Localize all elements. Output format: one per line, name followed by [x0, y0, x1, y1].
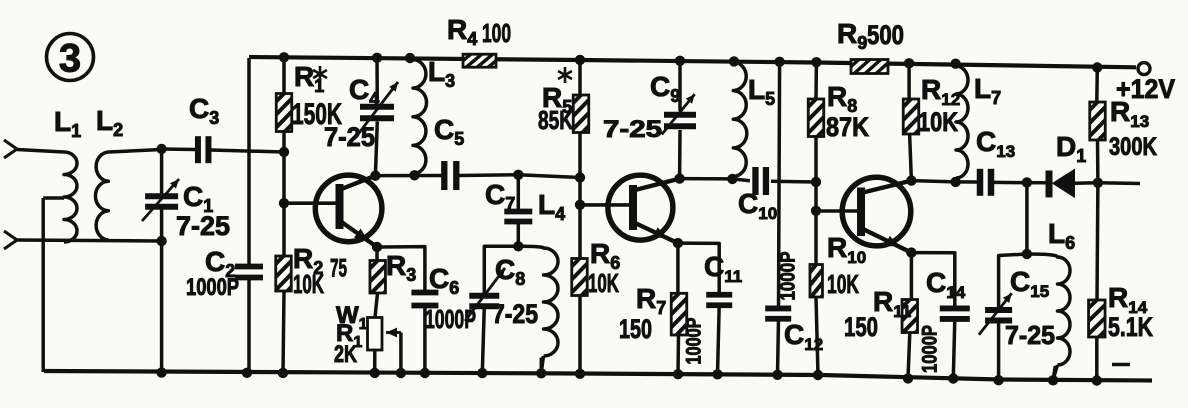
svg-text:10K: 10K: [918, 107, 958, 137]
svg-text:1000P: 1000P: [683, 318, 706, 365]
svg-text:10K: 10K: [588, 268, 619, 298]
svg-text:1000P: 1000P: [777, 252, 800, 301]
svg-text:1000P: 1000P: [919, 325, 942, 373]
svg-text:300K: 300K: [1109, 133, 1157, 161]
svg-text:7-25: 7-25: [176, 211, 230, 241]
svg-text:1000P: 1000P: [425, 304, 476, 334]
svg-text:1000P: 1000P: [186, 274, 239, 301]
svg-text:10K: 10K: [827, 269, 859, 299]
svg-text:500: 500: [867, 20, 904, 50]
svg-text:7-25: 7-25: [603, 116, 662, 143]
svg-text:150: 150: [619, 314, 652, 344]
svg-text:7-25: 7-25: [324, 122, 375, 152]
svg-text:5.1K: 5.1K: [1108, 312, 1153, 342]
svg-text:10K: 10K: [293, 269, 324, 299]
svg-text:+12V: +12V: [1116, 74, 1175, 104]
svg-text:150: 150: [844, 312, 878, 342]
svg-text:85K: 85K: [538, 105, 573, 135]
svg-text:87K: 87K: [826, 112, 869, 142]
svg-text:100: 100: [482, 18, 511, 48]
svg-text:7-25: 7-25: [1005, 320, 1055, 350]
svg-text:3: 3: [59, 37, 81, 81]
svg-text:7-25: 7-25: [492, 299, 538, 329]
svg-text:2K: 2K: [334, 341, 357, 368]
svg-text:75: 75: [330, 255, 347, 283]
